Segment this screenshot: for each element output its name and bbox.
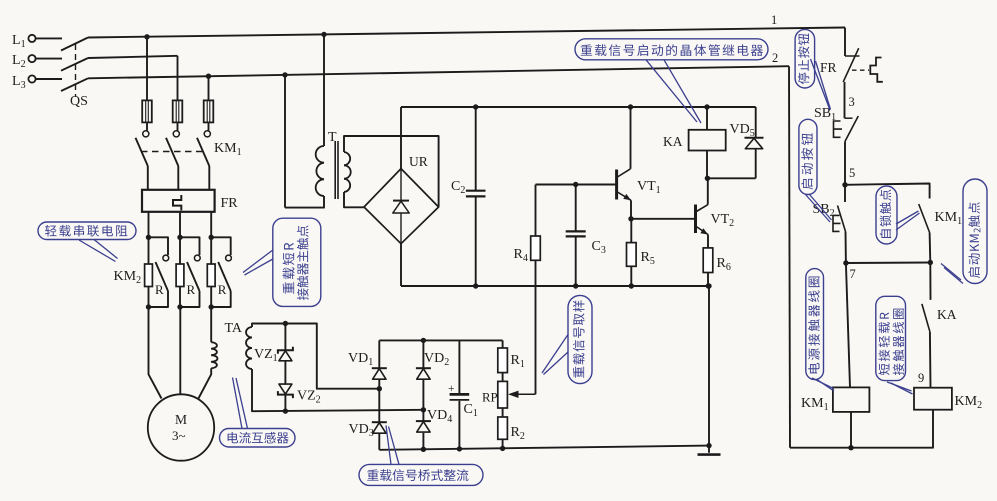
callout current transformer — [220, 429, 296, 448]
wire T secondary bottom — [344, 192, 364, 207]
callout heavy-load signal sampling — [568, 295, 592, 383]
transformer T secondary — [344, 152, 351, 192]
callout transistor relay started by heavy-load signal — [575, 39, 768, 60]
junction L3-fuse3 — [206, 74, 211, 79]
wire FR to SB1 — [844, 82, 846, 118]
potentiometer RP wiper — [508, 391, 536, 398]
transistor VT1 — [617, 169, 631, 201]
svg-text:SB1: SB1 — [814, 106, 836, 123]
wire KM1-1 to FR — [147, 166, 149, 190]
wire FR out 2 — [179, 212, 181, 238]
stop button SB1 fixed tick — [845, 117, 853, 119]
label KA contact — [937, 307, 957, 322]
callout leader to SB1 — [811, 59, 831, 110]
wire VZ chain top — [284, 324, 286, 351]
start button SB2 blade — [838, 206, 846, 232]
svg-text:VZ1: VZ1 — [254, 347, 278, 364]
disconnector QS pole 2 — [61, 58, 88, 71]
terminal L3 — [12, 74, 36, 91]
svg-text:VT2: VT2 — [711, 212, 735, 229]
junction VZ top — [283, 321, 288, 326]
label C3 — [592, 239, 606, 256]
fuse FU2 — [173, 100, 183, 122]
contact KM2 (branch 1) wire top — [149, 237, 169, 255]
terminal L2 — [12, 53, 36, 70]
callout leader to KA — [646, 60, 701, 123]
label RP — [482, 391, 498, 405]
wire TA secondary bottom — [252, 369, 423, 411]
junction branch 1 bottom — [146, 304, 151, 309]
wire KM1 contact bottom — [929, 233, 932, 263]
junction VT1 emitter — [628, 216, 633, 221]
contact KM2 (branch 1) blade — [156, 262, 169, 291]
wire fuse 1 out — [146, 122, 148, 130]
wire KM1-3 to FR — [208, 166, 210, 190]
junction VT1 collector rail — [628, 104, 633, 109]
motor M — [148, 394, 214, 460]
label R (branch 2) — [187, 282, 196, 297]
wire L1 stub — [35, 37, 62, 39]
svg-text:TA: TA — [225, 321, 243, 336]
svg-text:RP: RP — [482, 391, 498, 405]
junction C2 bottom — [473, 283, 478, 288]
label R5 — [641, 250, 655, 267]
contact FR fixed tick — [845, 55, 860, 57]
wire motor phase 3 upper — [210, 307, 212, 342]
label VT2 — [711, 212, 735, 229]
wire bridge left mid — [378, 379, 380, 422]
callout leader to VD bridge — [386, 425, 399, 464]
contact KM2 (branch 1) fixed — [163, 255, 169, 261]
label T — [328, 130, 337, 145]
label node 5 — [849, 166, 855, 180]
junction branch 2 bottom — [177, 304, 182, 309]
callout leader to KM1 coil — [812, 378, 834, 391]
callout heavy-load shorting R main contacts — [273, 218, 321, 306]
contact KM1 self-lock blade — [919, 204, 930, 233]
wire KA node to VD5 — [707, 177, 756, 179]
wire UR plus up — [400, 107, 402, 169]
junction bridge right top — [421, 338, 426, 343]
label C2 — [451, 179, 465, 196]
resistor R2 — [498, 417, 508, 448]
capacitor C1 polarity + — [448, 383, 455, 395]
svg-text:3: 3 — [849, 95, 855, 109]
junction L1-T primary — [321, 32, 326, 37]
callout leader to TA — [233, 378, 248, 429]
wire L2 stub — [35, 58, 62, 60]
wire C1 top tee — [0, 0, 1, 1]
resistor R1 — [498, 340, 508, 381]
stop button SB1 actuator — [834, 121, 843, 137]
label KA coil — [663, 134, 683, 149]
disconnector QS pole 3 — [61, 78, 88, 91]
svg-text:7: 7 — [850, 267, 856, 281]
wire KM1-2 to FR — [177, 166, 179, 190]
wire node7 to KA contact — [846, 262, 930, 265]
label KM2 contacts — [114, 269, 142, 286]
junction AC input right — [421, 407, 426, 412]
junction C3 bottom — [573, 283, 578, 288]
wire DC- rail — [401, 285, 709, 287]
svg-text:C1: C1 — [464, 402, 478, 419]
svg-text:R4: R4 — [514, 247, 528, 264]
junction branch 2 top — [177, 235, 182, 240]
callout heavy-load signal bridge rectifier — [359, 464, 483, 485]
junction R5 bottom — [629, 283, 634, 288]
wire KA coil bottom — [706, 151, 708, 179]
wire fuse 2 out — [177, 122, 179, 130]
zener diode VZ1 — [278, 347, 293, 361]
wire bridge right mid — [422, 379, 424, 421]
junction R2 bottom — [500, 446, 505, 451]
wire node2 rail — [789, 66, 790, 448]
svg-text:VD2: VD2 — [424, 351, 449, 368]
junction DC- corner — [706, 283, 711, 288]
wire VT1 collector — [630, 107, 632, 169]
wire sampling bottom rail — [379, 446, 709, 450]
capacitor C3 wire top — [575, 185, 577, 231]
junction branch 3 top — [209, 235, 214, 240]
capacitor C2 wire top — [475, 107, 477, 190]
wire VT2 base line — [631, 218, 696, 220]
svg-text:KM1: KM1 — [935, 210, 963, 227]
wire VD5 top — [755, 107, 757, 137]
junction C2 top — [473, 104, 478, 109]
wire VT2 collector — [707, 178, 709, 204]
contact KM1 main 3 blade — [197, 138, 209, 166]
svg-text:R: R — [155, 282, 164, 297]
wire bridge right bottom — [422, 433, 424, 449]
wire node7 to KM1 coil — [846, 263, 850, 387]
current transformer TA secondary — [246, 327, 252, 369]
diode VD4 — [416, 421, 431, 432]
svg-text:KM2: KM2 — [114, 269, 142, 286]
label VZ1 — [254, 347, 278, 364]
wire node1 drop — [844, 28, 846, 57]
wire VT2 emitter — [707, 235, 709, 248]
junction L1-fuse1 — [144, 34, 149, 39]
contact KM1 main 1 fixed — [143, 131, 149, 137]
svg-text:KM1: KM1 — [214, 141, 242, 158]
svg-text:R5: R5 — [641, 250, 655, 267]
svg-text:KM1: KM1 — [801, 396, 829, 413]
zener diode VZ2 — [278, 384, 293, 398]
label KM1 main — [214, 141, 242, 158]
callout leader to KM2 coil — [887, 382, 913, 394]
svg-text:QS: QS — [70, 94, 88, 109]
wire bridge left top — [378, 340, 380, 368]
svg-text:1: 1 — [771, 13, 777, 27]
capacitor C2 wire bottom — [475, 197, 477, 286]
svg-text:R: R — [187, 282, 196, 297]
wire DC- to ground — [708, 286, 710, 446]
contact KM1 main 1 blade — [136, 138, 148, 166]
junction VT2 collector node — [705, 176, 710, 181]
svg-text:KA: KA — [937, 307, 957, 322]
potentiometer RP — [498, 381, 508, 417]
terminal L1 — [12, 33, 36, 50]
junction branch 3 bottom — [209, 304, 214, 309]
svg-text:FR: FR — [820, 60, 837, 75]
coil KM1 — [833, 387, 870, 412]
wire T primary return — [284, 75, 286, 208]
svg-text:VD4: VD4 — [427, 408, 452, 425]
label VD5 — [730, 122, 755, 139]
diode VD1 — [372, 368, 387, 379]
wire L3 stub — [35, 78, 62, 80]
callout leader to KM1 contact — [896, 211, 920, 230]
callout power contactor coil — [806, 269, 824, 380]
wire L2 line — [88, 56, 178, 58]
wire VT1 emitter — [630, 200, 632, 219]
label node 1 — [771, 13, 777, 27]
start button SB2 wire top — [844, 185, 846, 202]
junction AC input left — [377, 386, 382, 391]
wire bridge left bottom — [378, 433, 380, 450]
contact KM1 main 3 fixed — [204, 131, 210, 137]
svg-text:UR: UR — [409, 154, 428, 169]
svg-text:T: T — [328, 130, 337, 145]
wire KA contact bottom — [929, 332, 932, 388]
junction L3-T primary return — [282, 72, 287, 77]
thermal relay FR contact symbol — [870, 58, 883, 82]
svg-text:KA: KA — [663, 134, 683, 149]
callout light-load series resistor — [38, 222, 136, 240]
junction KM1 bottom rail — [848, 445, 853, 450]
svg-text:C2: C2 — [451, 179, 465, 196]
contact KM2 (branch 2) wire bottom — [180, 291, 200, 307]
wire VZ chain middle — [284, 361, 286, 385]
coil KM2 — [914, 388, 952, 410]
junction node 5 — [842, 182, 847, 187]
junction C1 bottom — [457, 446, 462, 451]
svg-text:KM2: KM2 — [955, 394, 983, 411]
label C1 — [464, 402, 478, 419]
svg-text:3~: 3~ — [172, 428, 186, 443]
label FR — [221, 196, 239, 211]
svg-text:9: 9 — [918, 371, 924, 385]
svg-text:+: + — [448, 383, 455, 395]
contact KM2 (branch 3) wire top — [211, 237, 231, 255]
fuse FU1 — [142, 100, 152, 122]
label VD3 — [349, 422, 374, 439]
thermal relay FR heater symbol — [173, 195, 181, 210]
wire fuse 3 feed — [208, 76, 210, 100]
junction ground node — [706, 443, 711, 448]
contact KM1 main 2 blade — [166, 138, 178, 166]
resistor R (branch 3) — [207, 237, 215, 307]
label R (branch 1) — [155, 282, 164, 297]
label R6 — [717, 256, 731, 273]
label VT1 — [637, 179, 661, 196]
svg-text:VT1: VT1 — [637, 179, 661, 196]
wire KM2 coil bottom — [790, 410, 933, 448]
wire bridge top rail — [379, 339, 502, 341]
wire KM1 coil bottom — [850, 412, 852, 448]
contactor KM1 mechanical link — [141, 151, 206, 153]
svg-text:FR: FR — [221, 196, 239, 211]
label VZ2 — [297, 389, 321, 406]
wire T primary bottom — [285, 196, 324, 208]
contact KM1 main 2 fixed — [173, 131, 179, 137]
capacitor C1 wire bottom — [458, 401, 460, 449]
label node 2 — [772, 51, 778, 65]
junction node 7 — [843, 260, 848, 265]
junction branch 1 top — [146, 235, 151, 240]
label UR — [409, 154, 428, 169]
label R2 — [511, 425, 525, 442]
callout stop button — [795, 29, 815, 88]
capacitor C3 wire bottom — [575, 237, 577, 286]
wire VT1 base line — [536, 184, 617, 186]
label SB2 — [813, 202, 835, 219]
bridge rectifier UR — [364, 169, 439, 244]
svg-text:VD3: VD3 — [349, 422, 374, 439]
contact KM2 (branch 2) blade — [187, 262, 200, 291]
contact KM2 (branch 3) wire bottom — [211, 291, 231, 307]
label node 3 — [849, 95, 855, 109]
wire L3 line (node 2) — [88, 66, 789, 78]
contact KM2 (branch 3) blade — [218, 262, 231, 291]
wire fuse 3 out — [208, 122, 210, 130]
fuse FU3 — [204, 100, 214, 122]
contact FR link dashes — [852, 69, 869, 71]
label R4 — [514, 247, 528, 264]
wire TA secondary top — [252, 324, 379, 389]
svg-text:2: 2 — [772, 51, 778, 65]
label KM2 coil — [955, 394, 983, 411]
contact KM2 (branch 2) wire top — [180, 237, 200, 255]
contact KA blade — [922, 304, 930, 332]
start button SB2 actuator — [833, 215, 841, 231]
disconnector QS link — [75, 44, 77, 97]
svg-text:R: R — [218, 282, 227, 297]
callout start button — [799, 119, 817, 194]
contact KM2 (branch 2) fixed — [194, 255, 200, 261]
label R (branch 3) — [218, 282, 227, 297]
svg-text:R6: R6 — [717, 256, 731, 273]
wire node5 to KM1 contact — [845, 184, 930, 199]
contact KM2 (branch 3) fixed — [226, 255, 232, 261]
relay coil KA — [689, 130, 726, 151]
junction bridge right bottom — [421, 447, 426, 452]
contact FR blade — [843, 48, 859, 82]
wire VD5 bottom — [755, 149, 757, 178]
wire FR out 3 — [210, 212, 212, 238]
svg-text:VD1: VD1 — [348, 351, 373, 368]
svg-text:VZ2: VZ2 — [297, 389, 321, 406]
callout leader to RP — [542, 335, 568, 375]
svg-text:M: M — [175, 412, 187, 427]
label QS — [70, 94, 88, 109]
callout start KM2 contact — [963, 179, 987, 284]
transformer T core — [335, 141, 338, 199]
disconnector QS pole 1 — [61, 38, 88, 51]
wire DC+ top rail — [401, 106, 756, 108]
transformer T primary — [316, 146, 324, 196]
contact KA wire top — [929, 263, 931, 300]
callout leader to SB2 — [806, 195, 832, 223]
label SB1 — [814, 106, 836, 123]
label TA — [225, 321, 243, 336]
current transformer TA primary — [211, 342, 217, 368]
label VD2 — [424, 351, 449, 368]
resistor R (branch 1) — [145, 237, 153, 307]
diode VD2 — [416, 368, 431, 379]
wire UR minus down — [400, 244, 402, 286]
svg-text:L1: L1 — [12, 33, 26, 50]
wire motor phase 3 lower — [198, 368, 211, 398]
wire motor phase 1 — [149, 307, 162, 399]
contact KM2 (branch 1) wire bottom — [149, 291, 169, 307]
wire VZ chain bottom — [284, 395, 286, 411]
wire FR out 1 — [148, 212, 150, 238]
label VD1 — [348, 351, 373, 368]
resistor R (branch 2) — [176, 237, 184, 307]
svg-text:R1: R1 — [511, 353, 525, 370]
wire motor phase 2 — [179, 307, 181, 394]
capacitor C2 — [466, 191, 486, 197]
label VD4 — [427, 408, 452, 425]
junction VZ bottom — [283, 408, 288, 413]
ground — [698, 446, 721, 455]
label node 9 — [918, 371, 924, 385]
wire T secondary top — [344, 136, 439, 207]
wire T primary top — [323, 34, 325, 146]
callout self-lock contact — [876, 186, 897, 244]
wire SB2 bottom — [845, 232, 847, 264]
label FR contact — [820, 60, 837, 75]
resistor R4 — [531, 185, 541, 261]
wire bridge right top — [422, 340, 424, 368]
stop button SB1 blade — [845, 116, 858, 141]
label KM1 coil — [801, 396, 829, 413]
resistor R5 — [627, 219, 637, 286]
callout shorting light-load R contactor coil — [876, 296, 906, 380]
diode VD5 — [745, 138, 764, 149]
thermal relay FR heater box — [142, 190, 215, 212]
label node 7 — [850, 267, 856, 281]
junction C3 top — [573, 182, 578, 187]
wire fuse 1 feed — [146, 37, 148, 101]
wire KA coil top — [706, 107, 708, 130]
svg-text:5: 5 — [849, 166, 855, 180]
diode VD3 — [372, 422, 387, 433]
transistor VT2 — [696, 205, 709, 235]
wire RP wiper to R4 — [535, 260, 537, 394]
callout leader to R — [79, 240, 118, 262]
svg-text:VD5: VD5 — [730, 122, 755, 139]
callout leader to KM2 contacts — [243, 250, 273, 275]
svg-text:L2: L2 — [12, 53, 26, 70]
capacitor C1 — [450, 394, 470, 400]
svg-text:L3: L3 — [12, 74, 26, 91]
wire SB1 to node5 — [844, 141, 846, 184]
junction KA branch — [928, 260, 933, 265]
junction R6 bottom — [706, 283, 711, 288]
resistor R6 — [703, 248, 713, 286]
junction KA rail — [704, 104, 709, 109]
callout leader to KA contact — [941, 264, 963, 284]
wire fuse 2 feed — [177, 56, 179, 101]
label R1 — [511, 353, 525, 370]
wire L1 line (node 1) — [88, 28, 845, 38]
svg-text:C3: C3 — [592, 239, 606, 256]
svg-text:R2: R2 — [511, 425, 525, 442]
capacitor C3 — [566, 231, 586, 236]
capacitor C1 wire top — [458, 340, 460, 393]
